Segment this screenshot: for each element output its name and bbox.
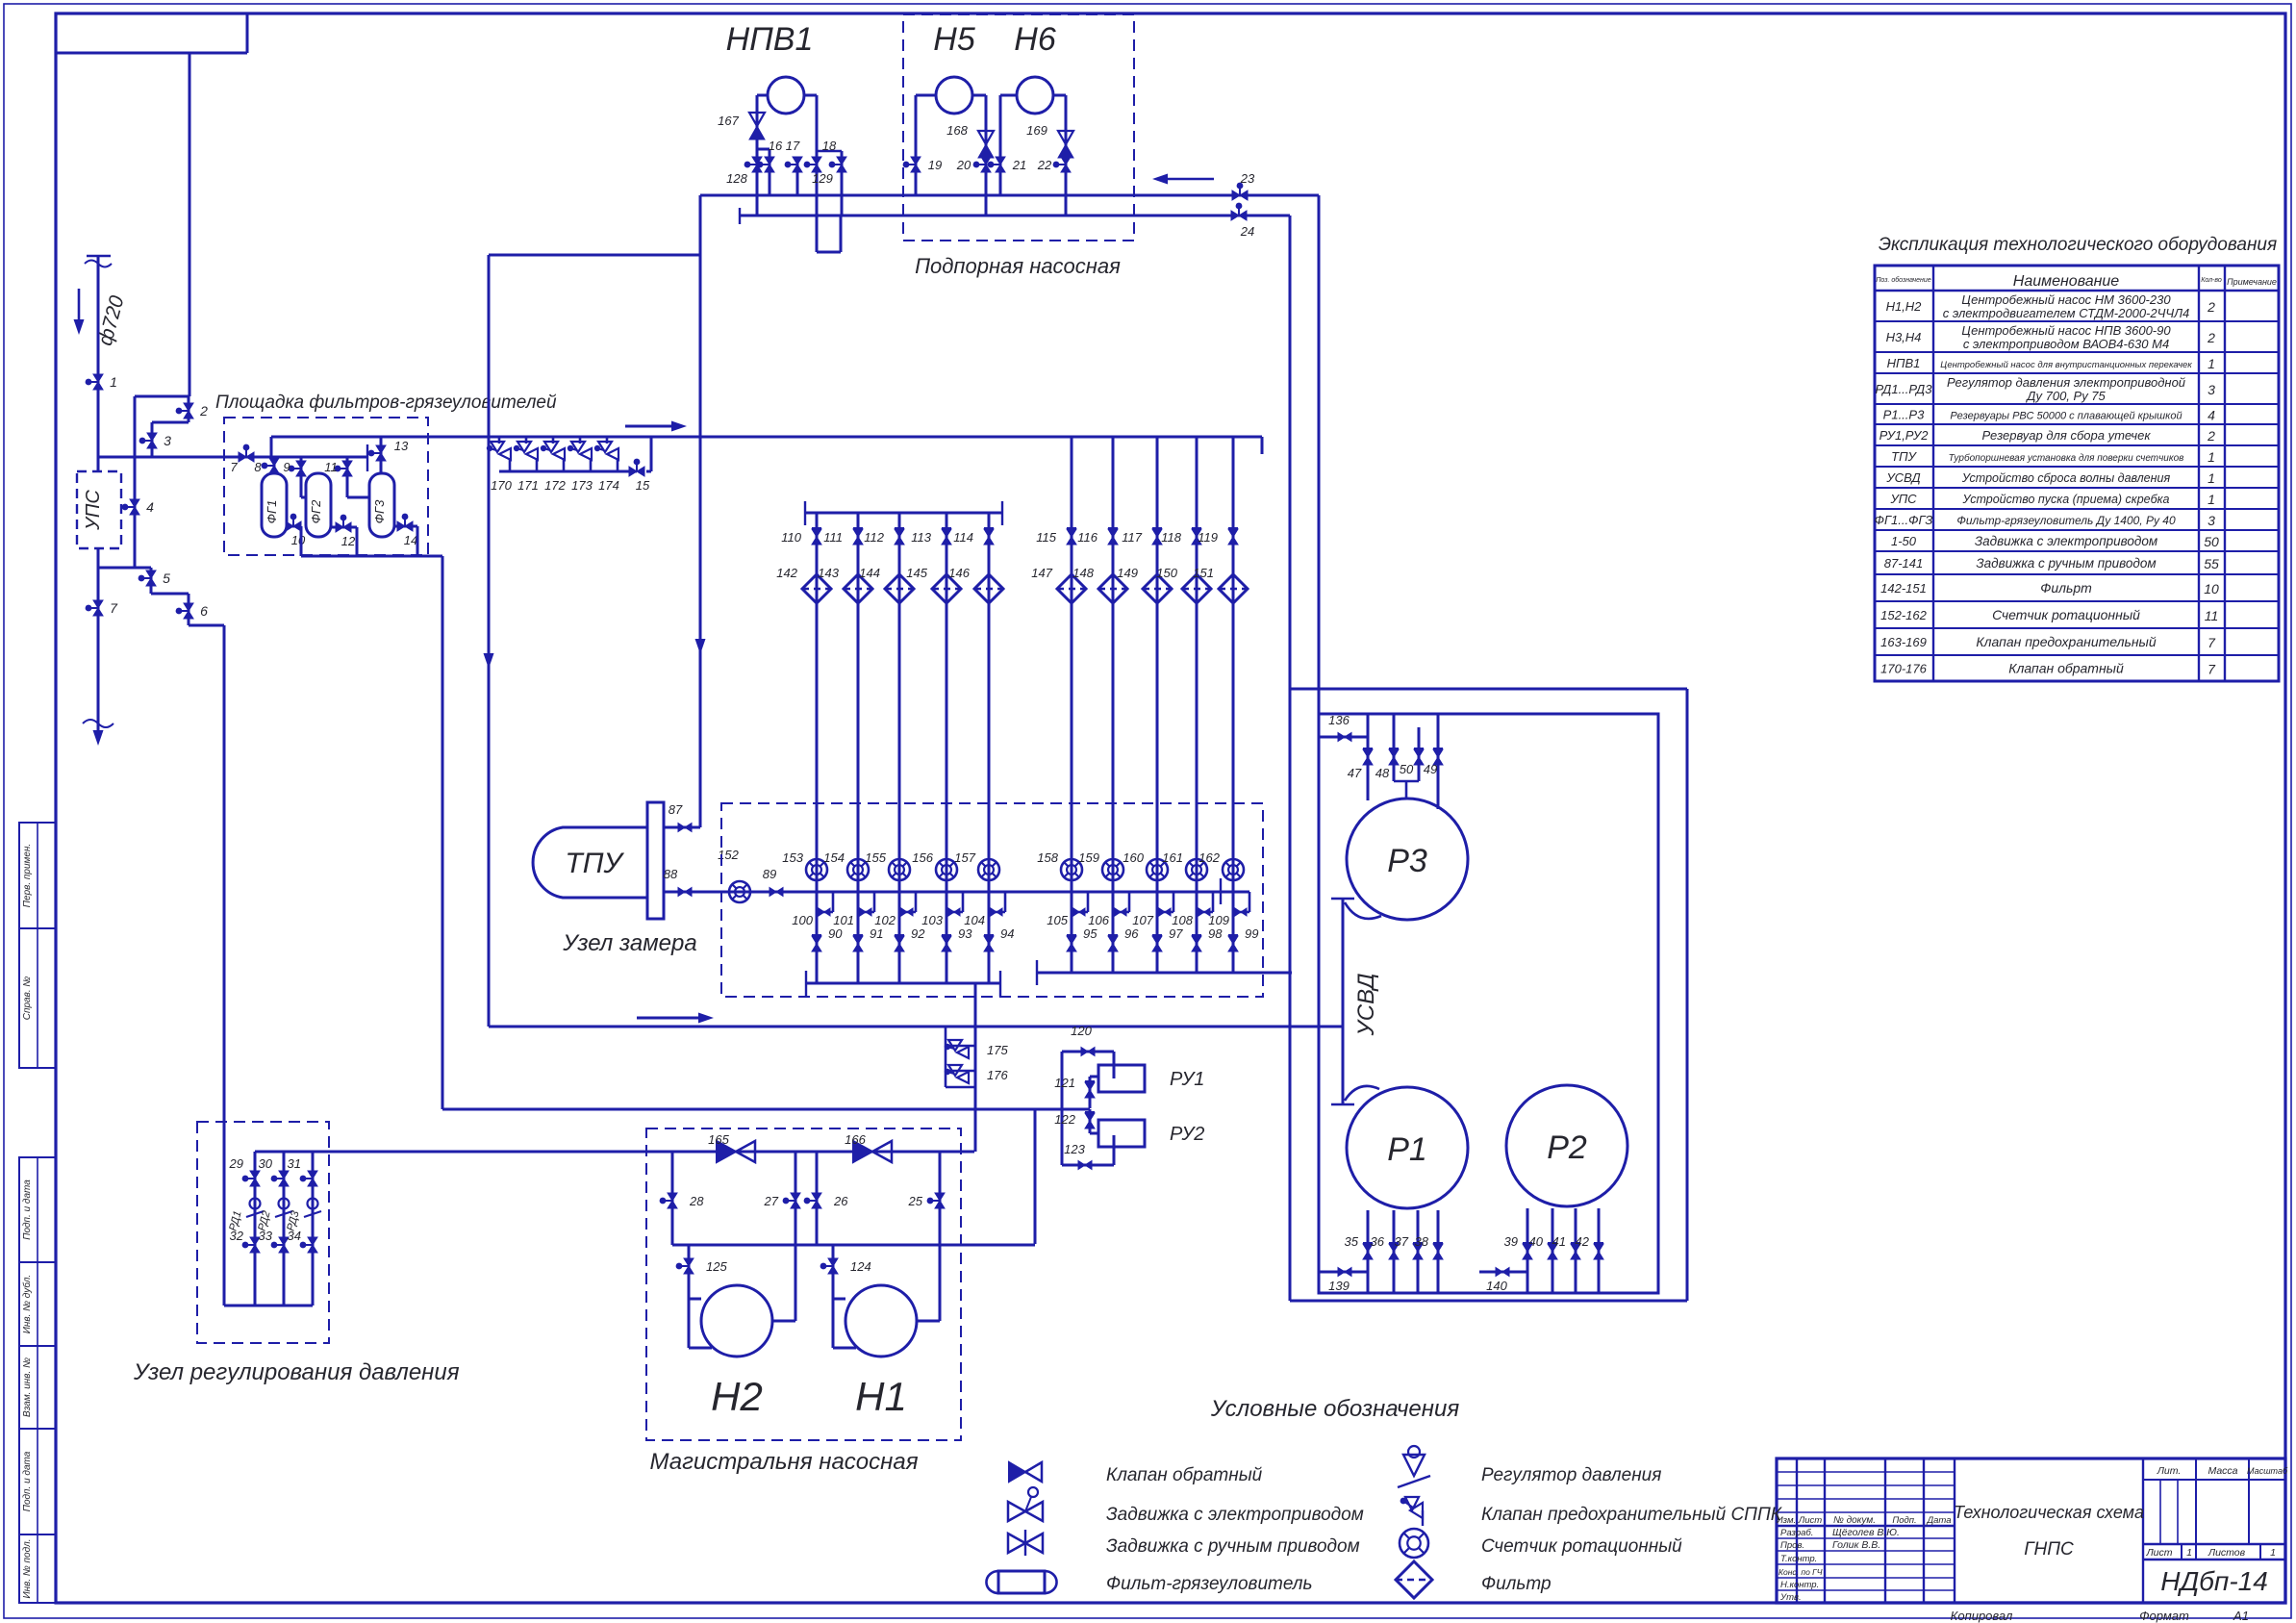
svg-text:Голик В.В.: Голик В.В. xyxy=(1832,1539,1880,1551)
valve 88 and counters line y=927 xyxy=(664,891,1249,894)
svg-text:Подп.: Подп. xyxy=(1892,1515,1916,1526)
svg-text:35: 35 xyxy=(1345,1234,1359,1249)
check 105 loop xyxy=(1087,892,1090,912)
svg-text:7: 7 xyxy=(230,460,238,474)
check 103 loop xyxy=(962,892,965,912)
svg-text:Инв. № дубл.: Инв. № дубл. xyxy=(21,1275,33,1334)
svg-text:2: 2 xyxy=(2207,299,2215,315)
measuring column 4 (g1) xyxy=(946,513,948,983)
measuring column 10 (g2) xyxy=(1232,437,1235,973)
counter 156 xyxy=(936,859,957,880)
svg-text:ТПУ: ТПУ xyxy=(1891,449,1917,464)
svg-text:125: 125 xyxy=(706,1259,727,1274)
svg-text:7: 7 xyxy=(2208,662,2216,677)
filter 144 xyxy=(885,574,914,603)
valve 113 xyxy=(942,529,951,545)
valve 92 xyxy=(895,936,904,951)
svg-text:17: 17 xyxy=(786,139,800,153)
svg-text:110: 110 xyxy=(781,530,801,545)
counter 154 xyxy=(847,859,869,880)
valve 115 xyxy=(1067,529,1076,545)
counter 162 xyxy=(1223,859,1244,880)
valve 124 xyxy=(828,1258,838,1274)
pump suction collector xyxy=(672,1244,1035,1247)
pressure regulator RD1 xyxy=(250,1199,261,1209)
svg-text:94: 94 xyxy=(1000,926,1014,941)
svg-text:30: 30 xyxy=(259,1156,273,1171)
svg-text:Наименование: Наименование xyxy=(2013,273,2120,290)
svg-text:176: 176 xyxy=(987,1068,1008,1082)
svg-text:95: 95 xyxy=(1083,926,1098,941)
svg-text:Кол-во: Кол-во xyxy=(2201,277,2222,284)
staircase valves 2,3 xyxy=(189,53,191,396)
frame stamp box Взам. инв. № xyxy=(19,1346,56,1429)
svg-text:99: 99 xyxy=(1245,926,1258,941)
valve 97 xyxy=(1152,936,1162,951)
svg-text:122: 122 xyxy=(1054,1112,1075,1127)
svg-text:10: 10 xyxy=(2204,581,2219,596)
flow arrow on line A xyxy=(625,425,671,428)
pump N1 xyxy=(832,1245,835,1348)
dashed box podpornaya nasosnaya xyxy=(903,14,1134,241)
svg-text:89: 89 xyxy=(763,867,776,881)
svg-text:36: 36 xyxy=(1371,1234,1385,1249)
check valve 170 xyxy=(498,437,501,444)
svg-text:100: 100 xyxy=(792,913,813,927)
svg-text:РД1...РД3: РД1...РД3 xyxy=(1876,382,1933,396)
svg-text:1: 1 xyxy=(2208,470,2215,486)
valve 95 xyxy=(1067,936,1076,951)
filter bottom outlets 10,12,14 xyxy=(287,525,301,528)
svg-text:ФГ3: ФГ3 xyxy=(372,499,387,523)
svg-text:Устройство пуска (приема) скре: Устройство пуска (приема) скребка xyxy=(1962,493,2170,506)
svg-text:Магистральня насосная: Магистральня насосная xyxy=(649,1449,918,1475)
header P1 y=203 xyxy=(700,194,1319,197)
tank farm outer box xyxy=(1290,688,1687,691)
valve 3 xyxy=(147,433,157,448)
valve 29 xyxy=(250,1171,260,1186)
valve 90 xyxy=(812,936,821,951)
svg-text:25: 25 xyxy=(908,1194,923,1208)
valve 125 xyxy=(684,1258,694,1274)
valve 89 xyxy=(770,888,783,897)
valve 121 xyxy=(1085,1082,1095,1098)
svg-text:Разраб.: Разраб. xyxy=(1780,1528,1813,1538)
svg-text:34: 34 xyxy=(288,1229,301,1243)
svg-text:163-169: 163-169 xyxy=(1880,635,1927,649)
valve 19 xyxy=(911,157,921,172)
svg-text:Р1: Р1 xyxy=(1387,1131,1427,1168)
svg-text:7: 7 xyxy=(110,600,118,616)
svg-text:96: 96 xyxy=(1124,926,1139,941)
svg-text:168: 168 xyxy=(946,123,968,138)
tank RU1 xyxy=(1098,1065,1145,1092)
svg-text:146: 146 xyxy=(948,566,970,580)
valve 4 line xyxy=(134,457,137,568)
svg-text:7: 7 xyxy=(2208,635,2216,650)
valve 15 xyxy=(629,467,644,476)
svg-text:Н3,Н4: Н3,Н4 xyxy=(1886,330,1922,344)
svg-text:156: 156 xyxy=(912,850,933,865)
svg-text:10: 10 xyxy=(291,533,306,547)
svg-text:Устройство сброса волны давлен: Устройство сброса волны давления xyxy=(1961,471,2171,485)
svg-text:139: 139 xyxy=(1328,1279,1350,1293)
svg-text:Экспликация технологического о: Экспликация технологического оборудовани… xyxy=(1879,235,2277,255)
svg-text:9: 9 xyxy=(283,460,290,474)
valve 13 on bypass xyxy=(380,437,383,473)
valve 88 xyxy=(678,888,692,897)
svg-text:Р1...Р3: Р1...Р3 xyxy=(1883,408,1925,422)
legend: filter-mud trap xyxy=(998,1571,1045,1593)
svg-text:Щёголев В.Ю.: Щёголев В.Ю. xyxy=(1832,1527,1900,1538)
tank P2 xyxy=(1506,1085,1627,1206)
svg-text:88: 88 xyxy=(664,867,678,881)
pump N2 xyxy=(688,1245,691,1348)
valve 91 xyxy=(853,936,863,951)
svg-text:Подп. и дата: Подп. и дата xyxy=(22,1179,33,1240)
svg-text:129: 129 xyxy=(812,171,833,186)
svg-text:Счетчик ротационный: Счетчик ротационный xyxy=(1992,607,2140,622)
legend: electric gate valve xyxy=(1008,1502,1043,1521)
check 107 loop xyxy=(1173,892,1175,912)
arrow down beside phi720 xyxy=(78,289,81,319)
FG2 filter vessel xyxy=(300,457,303,497)
svg-text:УСВД: УСВД xyxy=(1885,470,1920,485)
P2 outlet valves 39-42 xyxy=(1526,1208,1529,1293)
svg-text:98: 98 xyxy=(1208,926,1223,941)
long vertical x=728 xyxy=(699,195,702,827)
svg-text:123: 123 xyxy=(1064,1142,1085,1156)
svg-text:167: 167 xyxy=(718,114,739,128)
tank P1 xyxy=(1347,1087,1468,1208)
check valve 174 xyxy=(606,437,609,444)
arrow down on x=728 xyxy=(699,596,702,639)
svg-text:Фильт-грязеуловитель: Фильт-грязеуловитель xyxy=(1106,1574,1312,1594)
svg-text:Клапан обратный: Клапан обратный xyxy=(1106,1465,1263,1485)
valve 26 xyxy=(812,1193,821,1208)
svg-text:УПС: УПС xyxy=(83,490,104,531)
svg-text:3: 3 xyxy=(2208,382,2215,397)
svg-text:РУ1,РУ2: РУ1,РУ2 xyxy=(1880,428,1930,443)
svg-text:170-176: 170-176 xyxy=(1880,662,1927,676)
svg-text:Примечание: Примечание xyxy=(2227,277,2277,287)
svg-text:1: 1 xyxy=(2186,1547,2192,1559)
svg-text:№ докум.: № докум. xyxy=(1833,1515,1876,1526)
valve 5 xyxy=(146,571,156,586)
valve 9 xyxy=(296,461,306,476)
svg-text:174: 174 xyxy=(598,478,619,493)
valve 11 xyxy=(342,461,352,476)
valve 114 xyxy=(984,529,994,545)
svg-text:Лит.: Лит. xyxy=(2157,1465,2182,1477)
lower staircase 5,6,7 xyxy=(98,567,151,570)
check valve 171 xyxy=(525,437,528,444)
valve 7 on inlet xyxy=(93,600,103,616)
svg-text:152-162: 152-162 xyxy=(1880,608,1927,622)
valve 128 xyxy=(752,157,762,172)
svg-text:142: 142 xyxy=(776,566,797,580)
svg-text:151: 151 xyxy=(1193,566,1214,580)
feed line to regulators x=233 xyxy=(223,625,226,1306)
svg-text:161: 161 xyxy=(1162,850,1183,865)
svg-text:173: 173 xyxy=(571,478,593,493)
valve 33 xyxy=(279,1237,289,1253)
svg-text:87-141: 87-141 xyxy=(1884,556,1923,571)
svg-text:23: 23 xyxy=(1240,171,1255,186)
svg-text:155: 155 xyxy=(865,850,886,865)
FG3 filter vessel xyxy=(346,457,349,497)
svg-text:150: 150 xyxy=(1156,566,1177,580)
svg-text:90: 90 xyxy=(828,926,843,941)
header P2 y=224 xyxy=(739,208,741,224)
top-left frame notch xyxy=(56,52,247,55)
svg-text:Клапан обратный: Клапан обратный xyxy=(2008,661,2124,676)
uzel regulirovaniya dashed box xyxy=(197,1122,329,1343)
regulator column RD2 xyxy=(283,1152,286,1306)
measuring column 7 (g2) xyxy=(1112,437,1115,973)
legend: safety valve SPPK xyxy=(1400,1498,1407,1505)
svg-text:Поз. обозначение: Поз. обозначение xyxy=(1876,276,1930,284)
link line y=265 xyxy=(489,254,700,257)
check 106 loop xyxy=(1128,892,1131,912)
counter 155 xyxy=(889,859,910,880)
svg-text:1: 1 xyxy=(2270,1547,2276,1559)
pump N5 xyxy=(936,77,972,114)
valve 120 xyxy=(1081,1048,1095,1056)
svg-text:158: 158 xyxy=(1037,850,1058,865)
svg-text:Центробежный насос для внутрис: Центробежный насос для внутристанционных… xyxy=(1940,360,2192,370)
valve 30 xyxy=(279,1171,289,1186)
riser from g1 manifold x=1014 xyxy=(974,983,977,1152)
group2 bottom manifold xyxy=(1037,972,1292,975)
svg-text:114: 114 xyxy=(953,530,973,545)
svg-text:Подп. и дата: Подп. и дата xyxy=(22,1451,33,1511)
svg-text:Фильтр-грязеуловитель Ду 1400,: Фильтр-грязеуловитель Ду 1400, Ру 40 xyxy=(1956,514,2176,527)
svg-text:ГНПС: ГНПС xyxy=(2024,1539,2074,1560)
USVD device xyxy=(1342,899,1345,1104)
svg-text:Фильтр: Фильтр xyxy=(1481,1574,1552,1594)
valve 118 xyxy=(1192,529,1201,545)
regulator column RD1 xyxy=(254,1152,257,1306)
svg-text:21: 21 xyxy=(1012,158,1026,172)
svg-text:Подпорная насосная: Подпорная насосная xyxy=(915,254,1121,278)
valve 21 xyxy=(996,157,1005,172)
check 104 loop xyxy=(1004,892,1007,912)
frame stamp box Подп. и дата xyxy=(19,1429,56,1534)
regulator column RD3 xyxy=(312,1152,315,1306)
svg-text:8: 8 xyxy=(254,460,262,474)
filter 150 xyxy=(1182,574,1211,603)
svg-text:5: 5 xyxy=(163,571,170,586)
svg-text:115: 115 xyxy=(1036,530,1056,545)
pressure regulator RD2 xyxy=(279,1199,290,1209)
valve 32 xyxy=(250,1237,260,1253)
svg-text:Узел регулирования давления: Узел регулирования давления xyxy=(133,1359,460,1385)
drop to pump collector x=1076 xyxy=(1034,1109,1037,1244)
svg-text:48: 48 xyxy=(1375,766,1390,780)
valve 31 xyxy=(308,1171,317,1186)
svg-text:124: 124 xyxy=(850,1259,871,1274)
svg-text:50: 50 xyxy=(1400,762,1414,776)
svg-text:НДбп-14: НДбп-14 xyxy=(2160,1566,2268,1596)
counter 158 xyxy=(1061,859,1082,880)
USVD arc to P3 xyxy=(1345,902,1381,919)
svg-text:с электроприводом ВАОВ4-630 М4: с электроприводом ВАОВ4-630 М4 xyxy=(1963,337,2169,351)
svg-text:171: 171 xyxy=(517,478,539,493)
svg-text:Утв.: Утв. xyxy=(1779,1592,1802,1603)
svg-text:102: 102 xyxy=(874,913,896,927)
node: phi720 inlet line xyxy=(87,255,111,257)
svg-text:Узел замера: Узел замера xyxy=(562,930,696,956)
valve 99 xyxy=(1228,936,1238,951)
svg-text:Конс. по ГЧ: Конс. по ГЧ xyxy=(1779,1567,1823,1577)
tank RU2 xyxy=(1098,1120,1145,1147)
svg-text:Задвижка с ручным приводом: Задвижка с ручным приводом xyxy=(1106,1536,1360,1557)
dashed box magistralnaya nasosnaya xyxy=(646,1128,961,1440)
counter 153 xyxy=(806,859,827,880)
svg-text:31: 31 xyxy=(288,1156,301,1171)
svg-text:Регулятор давления электроприв: Регулятор давления электроприводной xyxy=(1947,375,2185,390)
filter 143 xyxy=(844,574,872,603)
svg-text:1: 1 xyxy=(110,374,117,390)
svg-text:149: 149 xyxy=(1117,566,1138,580)
svg-text:Н.контр.: Н.контр. xyxy=(1780,1580,1819,1590)
svg-text:3: 3 xyxy=(164,433,171,448)
valve 25 xyxy=(935,1193,945,1208)
svg-text:170: 170 xyxy=(491,478,512,493)
svg-text:169: 169 xyxy=(1026,123,1047,138)
svg-text:Технологическая схема: Технологическая схема xyxy=(1954,1503,2144,1522)
valve 111 xyxy=(853,529,863,545)
svg-text:11: 11 xyxy=(324,460,338,474)
svg-text:160: 160 xyxy=(1123,850,1144,865)
valve 94 xyxy=(984,936,994,951)
flow arrow left on P1 xyxy=(1168,178,1214,181)
counter 157 xyxy=(978,859,999,880)
FG1 filter vessel xyxy=(273,457,276,473)
svg-text:101: 101 xyxy=(833,913,854,927)
svg-text:Резервуары РВС 50000 с плавающ: Резервуары РВС 50000 с плавающей крышкой xyxy=(1950,411,2182,422)
svg-text:РУ2: РУ2 xyxy=(1170,1124,1204,1145)
long vertical x=508 xyxy=(488,255,491,1027)
valve 27 xyxy=(791,1193,800,1208)
elbow feeds to tank farm xyxy=(1318,195,1321,714)
svg-text:49: 49 xyxy=(1424,762,1437,776)
valve 87 xyxy=(664,826,700,829)
TPU vessel xyxy=(533,827,647,898)
svg-text:Турбопоршневая установка для п: Турбопоршневая установка для поверки сче… xyxy=(1949,452,2184,464)
valve 139 xyxy=(1338,1268,1351,1277)
svg-text:103: 103 xyxy=(921,913,943,927)
svg-text:24: 24 xyxy=(1240,224,1254,239)
P1 outlet valves 35-38 xyxy=(1367,1210,1370,1293)
filter 151 xyxy=(1219,574,1248,603)
svg-text:4: 4 xyxy=(146,499,154,515)
svg-text:144: 144 xyxy=(859,566,880,580)
svg-text:112: 112 xyxy=(864,530,884,545)
frame stamp box Инв. № дубл. xyxy=(19,1262,56,1346)
svg-text:136: 136 xyxy=(1328,713,1350,727)
valve 119 xyxy=(1228,529,1238,545)
check valve 166 xyxy=(853,1141,872,1162)
valve 123 xyxy=(1078,1161,1092,1170)
svg-text:ФГ2: ФГ2 xyxy=(309,499,323,523)
svg-text:13: 13 xyxy=(394,439,409,453)
svg-text:105: 105 xyxy=(1047,913,1068,927)
svg-text:Н6: Н6 xyxy=(1014,21,1056,58)
filter 148 xyxy=(1098,574,1127,603)
counter 160 xyxy=(1147,859,1168,880)
valve 4 xyxy=(130,499,139,515)
svg-text:15: 15 xyxy=(636,478,650,493)
svg-text:ФГ1: ФГ1 xyxy=(265,500,279,524)
svg-text:29: 29 xyxy=(229,1156,243,1171)
svg-text:28: 28 xyxy=(689,1194,704,1208)
valve 22 xyxy=(1061,157,1071,172)
svg-text:Р3: Р3 xyxy=(1387,843,1427,879)
valve 136 xyxy=(1338,733,1351,742)
pump N2 suction/discharge xyxy=(671,1152,674,1245)
svg-text:111: 111 xyxy=(823,530,843,545)
group1 header xyxy=(805,512,1002,515)
svg-text:Н2: Н2 xyxy=(711,1374,763,1419)
svg-text:РУ1: РУ1 xyxy=(1170,1069,1204,1090)
svg-text:175: 175 xyxy=(987,1043,1008,1057)
valve 93 xyxy=(942,936,951,951)
valve 98 xyxy=(1192,936,1201,951)
uzel zamera dashed box xyxy=(721,803,1263,997)
P3 inlet valves 47,48,50,49 xyxy=(1367,714,1370,800)
counter 159 xyxy=(1102,859,1123,880)
arrow down on inlet xyxy=(97,707,100,730)
valve 7f xyxy=(239,452,254,462)
equipment table xyxy=(1875,266,2279,681)
filter outlet collector xyxy=(301,555,442,558)
valve 20 xyxy=(981,157,991,172)
svg-text:118: 118 xyxy=(1161,530,1181,545)
counter 152 xyxy=(729,881,750,902)
bypass main line A y=454 xyxy=(271,436,1262,439)
valve 129 xyxy=(812,157,821,172)
svg-text:6: 6 xyxy=(200,603,208,619)
svg-text:Копировал: Копировал xyxy=(1951,1609,2013,1623)
svg-text:97: 97 xyxy=(1169,926,1183,941)
valve 18 xyxy=(837,157,846,172)
measuring column 1 (g1) xyxy=(816,513,819,983)
measuring column 2 (g1) xyxy=(857,513,860,983)
svg-text:143: 143 xyxy=(818,566,839,580)
svg-text:3: 3 xyxy=(2208,513,2215,528)
svg-text:50: 50 xyxy=(2204,534,2219,549)
svg-text:НПВ1: НПВ1 xyxy=(726,21,814,58)
svg-text:55: 55 xyxy=(2204,556,2219,571)
legend: check valve xyxy=(1009,1462,1025,1482)
bypass 175/176 ladder xyxy=(945,1027,947,1087)
tank P3 xyxy=(1347,799,1468,920)
svg-text:Масштаб: Масштаб xyxy=(2247,1466,2288,1476)
svg-text:20: 20 xyxy=(956,158,971,172)
break squiggle at inlet top xyxy=(85,261,112,267)
UPS box xyxy=(77,471,121,548)
valve 17 xyxy=(793,157,802,172)
svg-text:32: 32 xyxy=(230,1229,244,1243)
valve 34 xyxy=(308,1237,317,1253)
frame stamp box Справ. № xyxy=(19,928,56,1068)
tank farm inner box xyxy=(1319,714,1658,1293)
svg-text:18: 18 xyxy=(822,139,837,153)
svg-text:Задвижка с электроприводом: Задвижка с электроприводом xyxy=(1975,534,2157,548)
svg-text:Р2: Р2 xyxy=(1547,1129,1587,1166)
